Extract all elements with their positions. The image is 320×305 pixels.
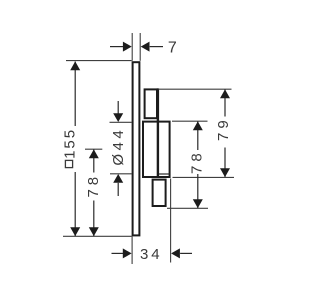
- dim 34: extension lines: [131, 237, 133, 265]
- dim Ø44: top arrow (outside, pointing down): [117, 101, 119, 114]
- dim 34: left line+arrow: [112, 252, 124, 254]
- dim 155: vertical line: [74, 62, 76, 127]
- dim 79: extension lines: [159, 88, 232, 90]
- svg-text:Ø44: Ø44: [110, 127, 127, 166]
- dim 78 right: extension lines: [172, 120, 208, 122]
- svg-text:155: 155: [61, 128, 78, 159]
- dim 34: right arrow+line: [171, 248, 180, 258]
- top knob: [145, 89, 157, 118]
- handle bottom thin line: [159, 173, 170, 175]
- bottom knob: [153, 180, 166, 206]
- svg-text:79: 79: [215, 116, 232, 141]
- dim 155: square symbol: [65, 160, 72, 167]
- svg-text:34: 34: [140, 246, 163, 263]
- dim 78 left: vertical line: [93, 150, 95, 173]
- dim 78 right: vertical line: [197, 122, 199, 151]
- dim 7: left line+arrow: [110, 46, 123, 48]
- svg-text:7: 7: [168, 40, 177, 57]
- divider line: [157, 88, 159, 178]
- dim 155: extension lines: [66, 60, 132, 62]
- dim 7: extension lines: [131, 33, 133, 61]
- middle housing: [143, 122, 170, 177]
- svg-text:78: 78: [85, 173, 102, 198]
- wall plate side view: [133, 62, 140, 235]
- dim Ø44: extension lines: [110, 121, 132, 123]
- dim 79: vertical line: [224, 90, 226, 117]
- dim 7: right arrow+line: [141, 42, 150, 52]
- dim Ø44: bottom arrow (outside, pointing up): [113, 174, 123, 183]
- svg-text:78: 78: [189, 149, 206, 174]
- dim 78 left: tick: [85, 148, 102, 150]
